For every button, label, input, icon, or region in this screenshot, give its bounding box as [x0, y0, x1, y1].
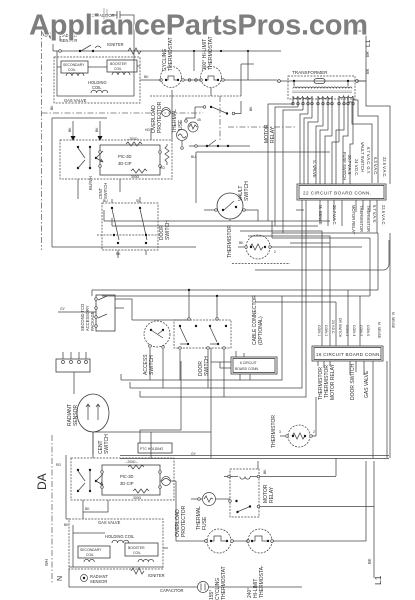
svg-text:GAS VALVE: GAS VALVE: [364, 370, 370, 398]
wire to sensor: [73, 372, 75, 394]
thermal fuse F1: [188, 122, 198, 132]
svg-text:SL: SL: [136, 199, 140, 203]
wire jog to transformer: [241, 64, 254, 96]
booster coil 2: [125, 543, 158, 556]
svg-text:M. SENSE: M. SENSE: [377, 322, 381, 339]
svg-text:GAS VALVE: GAS VALVE: [64, 98, 87, 103]
svg-text:300Ω: 300Ω: [133, 496, 142, 500]
svg-text:BU: BU: [103, 199, 108, 203]
chain line left: [51, 435, 53, 584]
wire long bus: [112, 225, 318, 227]
svg-text:BR: BR: [365, 51, 370, 57]
console feed wires: [52, 118, 151, 247]
secondary coil: [61, 61, 88, 73]
transformer secondary winding 2: [318, 96, 332, 98]
gas valve internal wires: [57, 51, 134, 96]
wire 16-box feeds: [336, 290, 360, 346]
transformer T1 box: [288, 76, 355, 99]
wire relay feeds: [189, 290, 217, 318]
svg-text:22.6 V.A.C.: 22.6 V.A.C.: [381, 205, 386, 226]
wire top rail: [53, 44, 281, 51]
wire double line upper: [120, 455, 389, 457]
svg-text:BK: BK: [85, 507, 90, 511]
svg-text:MOTOR RELAY: MOTOR RELAY: [330, 363, 336, 400]
divider chain lines: [42, 112, 204, 114]
svg-text:COIL: COIL: [92, 85, 102, 90]
svg-text:PIC-3D: PIC-3D: [118, 154, 131, 159]
accessory package CN2: [96, 295, 115, 331]
svg-text:BK: BK: [249, 106, 253, 111]
buzzer B1: [177, 130, 188, 141]
svg-text:COIN 5: COIN 5: [359, 325, 363, 336]
fuse F2: [314, 79, 325, 84]
node J4: [188, 289, 190, 291]
svg-text:COIN 6: COIN 6: [366, 325, 370, 336]
wire bottom border: [52, 246, 196, 248]
svg-text:DA: DA: [35, 473, 49, 490]
svg-text:BK: BK: [50, 105, 54, 110]
svg-text:RD: RD: [56, 463, 61, 467]
wire bottom bus: [69, 569, 198, 587]
wire 6-box left feeds: [211, 362, 231, 368]
wire accessory exits: [115, 299, 132, 320]
igniter IG2: [131, 568, 144, 574]
console contacts: [77, 146, 79, 148]
svg-text:IGNITER: IGNITER: [107, 42, 124, 47]
cycling thermostat TH3: [207, 529, 231, 553]
wire right corner: [389, 233, 391, 458]
radiant sensor RS3: [81, 575, 88, 582]
connector pins below 22: [130, 200, 377, 397]
wire right drop: [386, 361, 388, 458]
node J1: [193, 50, 195, 52]
hi-limit thermostat TH4: [248, 529, 272, 553]
wire capacitor drop: [127, 15, 134, 51]
svg-text:PTC HOLDING: PTC HOLDING: [140, 447, 164, 451]
svg-text:22 CIRCUIT BOARD CONN.: 22 CIRCUIT BOARD CONN.: [303, 191, 372, 196]
transformer secondary winding 1: [293, 96, 312, 98]
svg-text:COIN 3: COIN 3: [345, 325, 349, 336]
wire thermistor leads: [238, 246, 362, 248]
console2 contacts: [77, 469, 79, 471]
thermal fuse F3: [191, 498, 202, 500]
wire bus left bends: [121, 374, 140, 397]
wire motor drops: [150, 348, 163, 388]
thermistor RT2: [246, 235, 270, 259]
connector 6 circuit board conn: [231, 357, 277, 374]
wire gy feed: [58, 311, 96, 313]
svg-text:3D-CIP: 3D-CIP: [120, 481, 134, 486]
node J2: [220, 50, 222, 52]
svg-text:RELAY: RELAY: [269, 486, 275, 503]
svg-text:SWITCH: SWITCH: [204, 356, 210, 376]
hi-limit thermostat TH2: [201, 67, 222, 88]
wire right stub: [357, 80, 366, 82]
svg-text:6.7 V.A.S.: 6.7 V.A.S.: [372, 205, 377, 223]
wire nested bend 3: [348, 98, 372, 183]
svg-text:20.7 V.A.S.: 20.7 V.A.S.: [347, 155, 352, 175]
svg-text:THERMOSTA-: THERMOSTA-: [259, 565, 265, 598]
svg-text:HOLDING COIL: HOLDING COIL: [105, 534, 135, 539]
svg-text:GAS VALVE: GAS VALVE: [98, 520, 121, 525]
svg-text:PROTECTOR: PROTECTOR: [157, 101, 163, 133]
svg-text:SWITCH: SWITCH: [244, 181, 250, 201]
svg-text:(OPTIONAL): (OPTIONAL): [258, 316, 264, 345]
svg-text:3: 3: [279, 430, 281, 434]
svg-text:FUSE SWITCH: FUSE SWITCH: [342, 152, 347, 180]
svg-text:SENSOR: SENSOR: [73, 404, 79, 426]
connector 22 circuit board conn: [297, 184, 386, 200]
svg-text:L1: L1: [373, 575, 383, 585]
wire long bus: [104, 220, 330, 222]
wire dash under thermistor: [232, 263, 290, 265]
svg-text:PIC-3D: PIC-3D: [120, 474, 133, 479]
wire top stub: [356, 30, 366, 32]
wire tap routing left: [268, 104, 303, 233]
svg-text:S. VALVE: S. VALVE: [312, 160, 317, 178]
svg-text:FUSE: FUSE: [202, 516, 208, 530]
wire 6-box stubs: [236, 351, 250, 380]
control box PIC-3D 2: [102, 465, 160, 495]
wire vertical and jog: [140, 361, 181, 443]
svg-text:BK: BK: [367, 558, 372, 564]
svg-text:TRANSFORMER: TRANSFORMER: [292, 70, 328, 75]
svg-text:AppliancePartsPros.com: AppliancePartsPros.com: [29, 10, 368, 42]
wire thermostat rail: [140, 79, 161, 81]
transformer terminal row: [293, 97, 353, 102]
motor relay K3 box: [230, 469, 259, 517]
wire thermistor feed: [315, 397, 317, 436]
node L1 bottom: [373, 461, 375, 578]
svg-text:PROTECTOR: PROTECTOR: [181, 505, 187, 537]
radiant sensor RS2 oval: [77, 394, 109, 432]
wire fan below box: [290, 210, 330, 243]
console2 box: [71, 458, 174, 500]
svg-text:2: 2: [274, 250, 276, 254]
svg-text:COIL: COIL: [114, 67, 122, 71]
node J3: [247, 50, 249, 52]
svg-text:SECONDARY: SECONDARY: [80, 548, 102, 552]
wire long vertical: [210, 348, 212, 458]
wire right bus: [366, 31, 390, 184]
svg-text:300Ω: 300Ω: [131, 175, 140, 179]
wire: [247, 51, 249, 80]
connector 16 circuit board conn: [312, 346, 383, 361]
wire long: [196, 151, 330, 153]
svg-text:BOOSTER: BOOSTER: [110, 62, 127, 66]
thermistor sensor RT1: [165, 144, 169, 165]
svg-text:HD: HD: [145, 128, 150, 132]
svg-text:BK: BK: [68, 127, 72, 132]
svg-text:SWITCH: SWITCH: [104, 434, 110, 454]
svg-text:→200Ω←: →200Ω←: [124, 460, 139, 464]
svg-text:COIL: COIL: [86, 553, 94, 557]
wire tap routing down: [300, 114, 318, 184]
resistor R4 300 ohm: [133, 489, 149, 493]
booster coil: [107, 60, 137, 72]
radiant sensor RS1: [43, 30, 49, 36]
wire relay drops: [180, 350, 224, 397]
svg-text:3D-CIP: 3D-CIP: [118, 161, 132, 166]
connector pins 16: [318, 361, 373, 458]
svg-text:SECONDARY: SECONDARY: [63, 63, 85, 67]
secondary coil 2: [78, 546, 110, 558]
wire relay2 feeds: [257, 461, 259, 469]
gas valve GV1 box: [54, 57, 140, 103]
svg-text:45: 45: [197, 118, 201, 122]
svg-text:COIL: COIL: [68, 68, 76, 72]
svg-text:BK: BK: [365, 68, 370, 74]
svg-text:N: N: [57, 576, 64, 581]
svg-text:GY: GY: [60, 307, 66, 311]
wire dash under thermostats: [150, 95, 241, 97]
wire door switch exits: [112, 197, 146, 258]
overload protector OL2: [160, 480, 176, 482]
overload protector OL1: [171, 90, 173, 140]
console2 exits: [83, 500, 108, 519]
wire bus to 16 conn: [240, 231, 330, 346]
svg-text:COIN 2: COIN 2: [324, 325, 328, 336]
wire thermostat rail 2: [233, 540, 366, 542]
svg-text:6.7 V.A.C. G.Y.: 6.7 V.A.C. G.Y.: [366, 147, 371, 174]
svg-text:22.6 V.A.C.: 22.6 V.A.C.: [382, 157, 387, 178]
gas valve2 internal wires: [73, 525, 168, 567]
svg-text:24 V.D.C.: 24 V.D.C.: [331, 320, 335, 334]
transformer core: [292, 91, 352, 93]
svg-text:20.7 V.A.C.: 20.7 V.A.C.: [332, 205, 337, 226]
svg-text:BU/WH: BU/WH: [88, 176, 93, 190]
svg-text:6.3 V.A.C.: 6.3 V.A.C.: [373, 157, 378, 175]
door switch contacts: [111, 207, 113, 209]
svg-text:BK: BK: [116, 252, 121, 256]
svg-text:THERMISTOR: THERMISTOR: [359, 205, 364, 232]
wire console2 top feed: [93, 431, 211, 433]
svg-text:BK: BK: [144, 75, 149, 79]
svg-text:DR SWITCH: DR SWITCH: [338, 318, 342, 338]
relay contact K1: [189, 145, 250, 147]
svg-text:24 V.D.C.: 24 V.D.C.: [354, 159, 359, 176]
resistor R2 300 ohm: [131, 169, 147, 173]
wire left drop: [66, 455, 69, 519]
wire mid bus 2: [102, 295, 370, 297]
control box PIC-3D: [100, 145, 160, 175]
svg-text:DOOR SWITCH: DOOR SWITCH: [350, 364, 356, 400]
svg-text:PACKAGE: PACKAGE: [90, 311, 95, 331]
wire double line lower: [120, 458, 389, 460]
chain border left upper: [41, 30, 43, 250]
transformer secondary winding 3: [339, 96, 353, 98]
svg-text:COIN 1: COIN 1: [317, 325, 321, 336]
wire left drop: [91, 290, 93, 296]
svg-text:BOOSTER: BOOSTER: [128, 546, 145, 550]
transformer primary winding: [294, 81, 348, 86]
svg-text:BU: BU: [191, 155, 196, 159]
svg-text:SENSOR: SENSOR: [90, 579, 107, 584]
wire mid bus 1: [92, 289, 378, 291]
wire bends to lower section: [370, 233, 378, 296]
svg-text:THERMISTOR: THERMISTOR: [366, 205, 371, 232]
relay contacts: [179, 325, 181, 327]
gas valve GV2 box: [69, 519, 163, 569]
wire: [193, 51, 195, 71]
wire mid horizontals: [272, 232, 378, 234]
switch S2: [195, 106, 203, 108]
console exits: [78, 179, 120, 199]
svg-text:16 CIRCUIT BOARD CONN.: 16 CIRCUIT BOARD CONN.: [316, 352, 381, 357]
switch S1 sensor contacts: [79, 50, 81, 52]
vault switch VS1: [217, 193, 243, 219]
relay K2 box: [174, 320, 231, 348]
svg-text:BK: BK: [239, 241, 244, 245]
node J5: [216, 295, 218, 297]
ptc block: [138, 443, 172, 453]
svg-text:SWITCH: SWITCH: [103, 183, 108, 199]
svg-text:BK: BK: [64, 523, 69, 527]
transformer primary wire: [277, 80, 366, 82]
svg-text:COIN 4: COIN 4: [352, 325, 356, 336]
svg-text:THERMOSTAT: THERMOSTAT: [221, 566, 227, 600]
wire: [104, 210, 112, 226]
wire tap routing right: [336, 104, 353, 184]
wire right bus down: [365, 461, 367, 541]
console outline bottom: [255, 240, 389, 270]
svg-text:SWITCH: SWITCH: [165, 220, 171, 240]
motor M1: [144, 321, 170, 347]
svg-text:→200Ω←: →200Ω←: [126, 137, 141, 141]
svg-text:MOTOR RELAY: MOTOR RELAY: [351, 205, 356, 235]
wire dashed tie: [97, 234, 160, 236]
svg-text:BOARD CONN.: BOARD CONN.: [235, 367, 259, 371]
svg-text:THERMISTOR: THERMISTOR: [271, 415, 277, 448]
svg-text:COIL: COIL: [133, 551, 141, 555]
cycling thermostat TH1: [161, 67, 182, 88]
connector arrows: [71, 136, 103, 141]
svg-text:WH: WH: [44, 559, 49, 566]
svg-text:RD: RD: [160, 166, 165, 170]
svg-text:M. SENSE: M. SENSE: [318, 205, 323, 225]
wire nested bend 2: [353, 96, 378, 183]
svg-text:THERMOSTAT: THERMOSTAT: [168, 37, 174, 71]
svg-text:THERMISTOR: THERMISTOR: [227, 225, 233, 258]
svg-text:IGNITER: IGNITER: [148, 573, 165, 578]
wire long bus a: [121, 296, 282, 380]
door switch DS1 box: [102, 203, 158, 250]
svg-text:BK: BK: [95, 127, 99, 132]
console switch assembly box: [60, 140, 172, 179]
svg-text:M. SENSE: M. SENSE: [391, 312, 395, 329]
wire: [195, 152, 197, 203]
svg-text:6 CIRCUIT: 6 CIRCUIT: [240, 361, 257, 365]
svg-text:CAPACITOR: CAPACITOR: [160, 588, 184, 593]
svg-text:VAULT SWITCH: VAULT SWITCH: [360, 142, 365, 172]
secondary taps: [293, 96, 312, 118]
thermistor RT3: [288, 425, 310, 447]
svg-text:2: 2: [313, 430, 315, 434]
svg-text:BK: BK: [263, 469, 267, 474]
connector CN1: [56, 359, 90, 372]
